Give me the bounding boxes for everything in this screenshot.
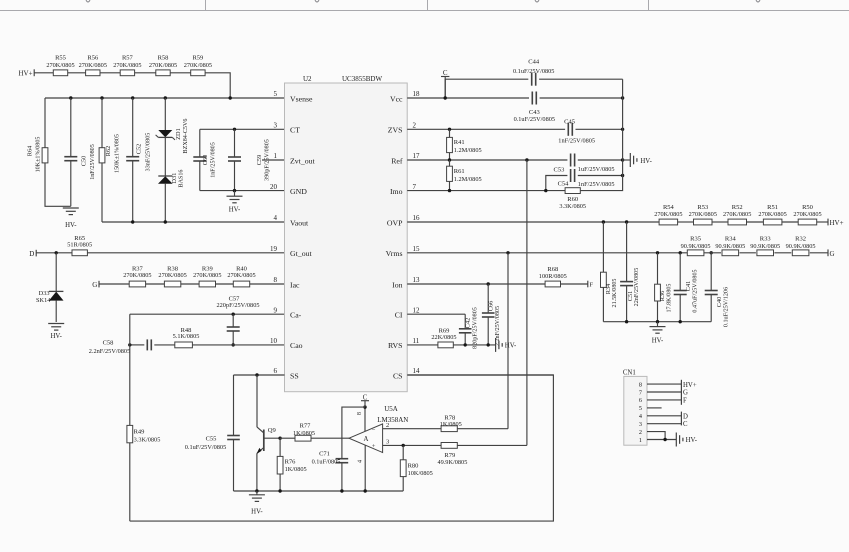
svg-text:Ref: Ref [391, 156, 403, 165]
svg-text:R55: R55 [55, 54, 66, 61]
svg-text:U5A: U5A [384, 405, 398, 413]
svg-text:5: 5 [639, 405, 642, 412]
svg-text:C44: C44 [528, 59, 540, 66]
wire Vcc net [407, 96, 624, 99]
svg-text:51R/0805: 51R/0805 [67, 241, 92, 248]
svg-text:CI: CI [395, 311, 403, 320]
resistor R36 17.8K (vertical) [655, 253, 673, 322]
svg-text:270K/0805: 270K/0805 [184, 62, 212, 69]
svg-text:11: 11 [413, 337, 420, 345]
resistor R78 1K [440, 253, 508, 432]
svg-text:Vaout: Vaout [290, 218, 309, 227]
svg-text:Iac: Iac [290, 280, 300, 289]
transistor Q9 [257, 375, 281, 491]
svg-text:3.3K/0805: 3.3K/0805 [134, 436, 161, 443]
svg-text:270K/0805: 270K/0805 [654, 211, 682, 218]
capacitor C50 1nF [64, 98, 96, 206]
svg-text:15: 15 [413, 245, 421, 253]
wire op-amp ground rail [234, 489, 404, 492]
capacitor C43 0.1uF [514, 92, 555, 124]
wire Iac net [99, 283, 285, 285]
svg-text:0.1uF/25V/0805: 0.1uF/25V/0805 [514, 116, 555, 123]
svg-text:270K/0805: 270K/0805 [158, 272, 186, 279]
svg-text:270K/0805: 270K/0805 [79, 62, 107, 69]
wire HV+ to R55..R59 chain [34, 73, 230, 98]
svg-text:R35: R35 [690, 236, 701, 243]
svg-text:R79: R79 [444, 452, 455, 459]
resistor R37 270K/0805 [123, 266, 151, 287]
svg-text:HV-: HV- [652, 338, 664, 345]
resistor R80 10K [400, 445, 433, 491]
svg-text:D: D [29, 250, 34, 258]
svg-text:R77: R77 [300, 423, 312, 430]
svg-text:10: 10 [270, 337, 278, 345]
svg-text:3.3K/0805: 3.3K/0805 [559, 203, 586, 210]
CN1 pin wires [647, 380, 681, 441]
svg-text:C: C [443, 69, 448, 77]
svg-text:33nF/25V/0805: 33nF/25V/0805 [145, 133, 151, 172]
svg-text:ZD1: ZD1 [175, 128, 182, 140]
svg-text:Vrms: Vrms [386, 249, 403, 258]
capacitor C51 22nF (vertical) [620, 222, 640, 322]
net label G [92, 281, 99, 289]
svg-text:R41: R41 [454, 139, 465, 146]
wire Ion net [407, 282, 588, 285]
svg-text:C58: C58 [103, 339, 114, 346]
svg-text:22K/0805: 22K/0805 [431, 334, 456, 341]
svg-text:C66: C66 [487, 301, 494, 312]
svg-text:C60: C60 [202, 155, 209, 166]
wire ZVS net [407, 128, 624, 131]
svg-text:1nF/25V/0805: 1nF/25V/0805 [90, 144, 96, 180]
svg-text:0.1uF/25V/0805: 0.1uF/25V/0805 [185, 444, 226, 451]
svg-text:4: 4 [639, 413, 642, 420]
U5A pin 4 [357, 445, 365, 491]
svg-text:0.1uF/25V/0805: 0.1uF/25V/0805 [513, 68, 554, 75]
svg-text:1nF/25V/0805: 1nF/25V/0805 [578, 181, 615, 188]
svg-text:R57: R57 [122, 54, 134, 61]
resistor R62 150K [99, 98, 120, 222]
svg-text:1.2M/0805: 1.2M/0805 [454, 147, 482, 154]
capacitor C52 33nF [126, 98, 151, 222]
ground HV- (RVS) [496, 338, 517, 352]
svg-text:270K/0805: 270K/0805 [123, 272, 151, 279]
svg-text:5: 5 [274, 90, 278, 98]
wire U5A pin 3 to R79 [383, 439, 442, 447]
svg-text:3: 3 [386, 439, 389, 446]
svg-text:16: 16 [413, 214, 421, 222]
resistor R38 270K/0805 [158, 266, 186, 287]
resistor R57 270K/0805 [113, 54, 141, 75]
capacitor C42 820pF (vertical) [459, 307, 479, 349]
svg-text:270K/0805: 270K/0805 [149, 62, 177, 69]
capacitor C57 220pF [216, 295, 259, 346]
svg-text:C41: C41 [685, 281, 692, 292]
svg-text:90.9K/0805: 90.9K/0805 [750, 243, 780, 250]
svg-text:R76: R76 [285, 458, 297, 465]
svg-text:150K±1%/0805: 150K±1%/0805 [114, 134, 120, 173]
resistor R65 51R [67, 235, 92, 256]
svg-text:8: 8 [274, 276, 278, 284]
svg-text:C50: C50 [80, 156, 87, 167]
resistor R61 1.2M [447, 160, 482, 191]
resistor R40 270K/0805 [227, 266, 255, 287]
svg-text:820pF/25V/0805: 820pF/25V/0805 [473, 307, 479, 349]
svg-text:HV-: HV- [640, 158, 652, 165]
svg-text:1nF/25V/0805: 1nF/25V/0805 [211, 142, 217, 178]
svg-text:R60: R60 [567, 196, 578, 203]
svg-text:1K/0805: 1K/0805 [285, 466, 307, 473]
svg-text:100R/0805: 100R/0805 [539, 273, 567, 280]
svg-text:6: 6 [274, 367, 278, 375]
wire OVP net [407, 220, 828, 223]
svg-text:G: G [92, 281, 97, 289]
svg-text:A: A [364, 436, 369, 443]
svg-text:ZVS: ZVS [388, 126, 403, 135]
U5A pin 8 / net C [357, 394, 369, 431]
resistor R32 90.9K/0805 [786, 236, 816, 256]
capacitor C41 0.47uF (vertical) [674, 253, 699, 322]
svg-text:F: F [683, 398, 687, 405]
diode D33 SK14 [36, 253, 63, 322]
resistor R56 270K/0805 [79, 54, 107, 75]
svg-text:17.8K/0805: 17.8K/0805 [667, 284, 673, 313]
svg-text:2: 2 [386, 422, 389, 429]
ground HV- (R64/C50) [63, 208, 79, 229]
svg-text:14: 14 [413, 367, 421, 375]
resistor R34 90.9K/0805 [715, 236, 745, 256]
svg-text:270K/0805: 270K/0805 [723, 211, 751, 218]
resistor R76 1K [277, 438, 306, 491]
svg-text:HV-: HV- [505, 343, 517, 350]
svg-text:270K/0805: 270K/0805 [46, 62, 74, 69]
capacitor C55 0.1uF [185, 375, 240, 491]
svg-text:UC3855BDW: UC3855BDW [342, 75, 382, 83]
svg-text:10K/0805: 10K/0805 [408, 470, 433, 477]
svg-text:R49: R49 [134, 428, 145, 435]
net label HV+ (top left) [19, 69, 35, 77]
net label F [588, 281, 594, 289]
svg-text:HV+: HV+ [19, 69, 33, 77]
ground HV- (D33) [48, 324, 64, 340]
resistor R41 1.2M [447, 129, 482, 160]
resistor R35 90.9K/0805 [681, 236, 711, 256]
wire RVS net [407, 343, 495, 346]
zener ZD1 BZX84-C5V6 [156, 98, 189, 153]
svg-text:R61: R61 [454, 168, 465, 175]
resistor R53 270K/0805 [689, 204, 717, 225]
svg-text:R33: R33 [760, 236, 771, 243]
op-amp U5A LM358AN [349, 405, 408, 453]
svg-text:1K/0805: 1K/0805 [440, 421, 462, 428]
svg-text:1.2M/0805: 1.2M/0805 [454, 176, 482, 183]
svg-text:D31: D31 [171, 173, 178, 184]
svg-text:C40: C40 [716, 297, 723, 308]
wire CI net [407, 313, 465, 315]
svg-text:HV-: HV- [686, 437, 698, 444]
svg-text:2: 2 [639, 429, 642, 436]
svg-text:7: 7 [639, 389, 642, 396]
svg-text:OVP: OVP [387, 218, 403, 227]
capacitor C45 1nF [558, 118, 595, 144]
resistor R59 270K/0805 [184, 54, 212, 75]
svg-text:90.9K/0805: 90.9K/0805 [715, 243, 745, 250]
svg-text:HV-: HV- [65, 222, 77, 229]
svg-text:1nF/25V/0805: 1nF/25V/0805 [558, 138, 595, 145]
net label C (Vcc) [441, 69, 449, 98]
svg-text:RVS: RVS [388, 341, 403, 350]
svg-text:270K/0805: 270K/0805 [113, 62, 141, 69]
resistor R52 270K/0805 [723, 204, 751, 225]
svg-text:HV-: HV- [251, 508, 263, 515]
svg-text:8: 8 [357, 412, 363, 415]
svg-text:3: 3 [639, 421, 642, 428]
net label HV+ (right) [828, 219, 844, 228]
svg-text:13: 13 [413, 276, 421, 284]
svg-text:R62: R62 [105, 146, 112, 157]
svg-text:+: + [372, 443, 376, 450]
svg-text:R64: R64 [27, 145, 34, 156]
capacitor C59 390pF [228, 129, 271, 190]
resistor R39 270K/0805 [193, 266, 221, 287]
svg-text:CS: CS [393, 371, 403, 380]
svg-text:R59: R59 [192, 54, 203, 61]
svg-text:C53: C53 [554, 167, 565, 174]
svg-text:10K±1%/0805: 10K±1%/0805 [35, 137, 41, 173]
svg-text:20: 20 [270, 183, 278, 191]
svg-text:C55: C55 [206, 436, 217, 443]
svg-text:22nF/25V/0805: 22nF/25V/0805 [634, 268, 640, 307]
capacitor C54 1nF [546, 169, 625, 191]
resistor R33 90.9K/0805 [750, 236, 780, 256]
resistor R64 10K [27, 98, 71, 206]
svg-text:HV+: HV+ [683, 382, 697, 389]
svg-text:6: 6 [639, 397, 642, 404]
svg-text:R36: R36 [659, 291, 666, 302]
svg-text:C51: C51 [627, 291, 634, 302]
svg-text:8: 8 [639, 381, 642, 388]
svg-text:Gt_out: Gt_out [290, 249, 312, 258]
svg-text:HV+: HV+ [830, 219, 844, 227]
svg-text:4: 4 [357, 460, 363, 463]
diode D31 BAS16 [158, 137, 184, 222]
svg-text:270K/0805: 270K/0805 [193, 272, 221, 279]
wire Zvt_out stub [262, 159, 285, 161]
svg-text:220pF/25V/0805: 220pF/25V/0805 [216, 302, 259, 309]
svg-text:D: D [683, 413, 688, 420]
svg-text:C: C [683, 421, 688, 428]
connector CN1 [623, 369, 647, 445]
resistor R55 270K/0805 [46, 54, 74, 75]
wire Vsense net [45, 96, 285, 99]
ground HV- (divider) [650, 322, 666, 345]
resistor R60 3.3K [559, 79, 622, 210]
svg-text:3: 3 [274, 122, 278, 130]
wire CT net [200, 128, 285, 131]
resistor R79 49.9K [437, 160, 526, 466]
ground HV- (right, Ref) [623, 153, 653, 167]
svg-text:270K/0805: 270K/0805 [689, 211, 717, 218]
CN1 net labels [683, 382, 697, 428]
wire CS net [407, 374, 553, 376]
svg-text:R56: R56 [87, 54, 99, 61]
wire CS loop (bottom) [130, 375, 554, 521]
svg-text:GND: GND [290, 187, 307, 196]
wire Ca- net [130, 313, 285, 316]
capacitor C58 2.2nF [89, 339, 152, 355]
resistor R58 270K/0805 [149, 54, 177, 75]
svg-text:2: 2 [413, 122, 417, 130]
svg-text:C54: C54 [558, 181, 570, 188]
resistor R51 270K/0805 [758, 204, 786, 225]
svg-text:21.5K/0805: 21.5K/0805 [612, 279, 618, 308]
svg-text:C52: C52 [135, 144, 142, 155]
svg-text:Vsense: Vsense [290, 94, 313, 103]
net label G (right) [828, 249, 835, 258]
resistor R49 3.3K [127, 314, 160, 521]
ground HV- (op-amp rail) [249, 491, 265, 515]
svg-text:Cao: Cao [290, 341, 303, 350]
svg-text:C45: C45 [564, 118, 575, 125]
wire Vaout net [102, 220, 285, 223]
svg-text:Ca-: Ca- [290, 311, 302, 320]
svg-text:Imo: Imo [390, 187, 403, 196]
wire Cao net [128, 343, 284, 346]
svg-text:R68: R68 [547, 266, 558, 273]
capacitor C71 0.1uF [312, 407, 365, 491]
wire divider ground rail [603, 320, 711, 323]
svg-text:LM358AN: LM358AN [377, 416, 408, 424]
svg-text:Q9: Q9 [268, 427, 277, 434]
svg-text:HV-: HV- [229, 207, 241, 214]
svg-text:R32: R32 [795, 236, 806, 243]
svg-text:0.1uF/25V/1206: 0.1uF/25V/1206 [723, 287, 729, 327]
svg-text:Ion: Ion [392, 280, 402, 289]
svg-text:CT: CT [290, 126, 300, 135]
svg-text:C42: C42 [465, 318, 472, 329]
svg-text:SK14: SK14 [36, 297, 51, 304]
resistor R68 100R [539, 266, 567, 287]
wire SS net [234, 373, 285, 376]
svg-text:1K/0805: 1K/0805 [293, 430, 315, 437]
svg-text:R34: R34 [605, 283, 612, 294]
resistor R77 1K [278, 423, 349, 441]
svg-text:270K/0805: 270K/0805 [793, 211, 821, 218]
svg-text:0.1uF/0805: 0.1uF/0805 [312, 458, 341, 465]
svg-text:90.9K/0805: 90.9K/0805 [786, 243, 816, 250]
svg-text:SS: SS [290, 371, 299, 380]
svg-text:49.9K/0805: 49.9K/0805 [437, 459, 467, 466]
svg-text:17: 17 [413, 152, 421, 160]
resistor R34 21.5K (vertical) [601, 222, 619, 322]
wire U5A pin 2 to R78 [383, 422, 442, 429]
svg-text:12: 12 [413, 306, 421, 314]
resistor R69 22K [431, 327, 456, 347]
svg-text:1: 1 [639, 437, 642, 444]
svg-text:1uF/25V/0805: 1uF/25V/0805 [578, 166, 615, 173]
capacitor C44 0.1uF [445, 59, 622, 98]
resistor R48 5.1K [173, 327, 200, 348]
op-amp/IC U2 UC3855BDW [285, 75, 408, 392]
svg-text:270K/0805: 270K/0805 [758, 211, 786, 218]
svg-text:G: G [683, 390, 688, 397]
svg-text:Zvt_out: Zvt_out [290, 156, 316, 165]
svg-text:90.9K/0805: 90.9K/0805 [681, 243, 711, 250]
svg-text:F: F [589, 282, 593, 289]
svg-text:270K/0805: 270K/0805 [227, 272, 255, 279]
resistor R50 270K/0805 [793, 204, 821, 225]
capacitor C53 1uF [554, 154, 615, 174]
wire Ref net [407, 158, 624, 161]
capacitor C40 0.1uF (vertical) [705, 253, 730, 327]
wire Gt_out net [36, 251, 284, 254]
svg-text:CN1: CN1 [623, 369, 636, 376]
svg-text:7: 7 [413, 183, 417, 191]
U2 pin numbers [270, 90, 420, 375]
svg-text:4: 4 [274, 214, 278, 222]
svg-text:BAS16: BAS16 [178, 170, 184, 188]
svg-text:R80: R80 [408, 462, 419, 469]
ground HV- (CN1) [676, 433, 697, 447]
wire GND net [200, 189, 285, 192]
svg-text:C71: C71 [319, 450, 330, 457]
svg-text:1: 1 [274, 152, 278, 160]
svg-text:19: 19 [270, 245, 278, 253]
net label D [29, 250, 36, 258]
svg-text:HV-: HV- [50, 333, 62, 340]
svg-text:R34: R34 [725, 236, 737, 243]
svg-text:18: 18 [413, 90, 421, 98]
ground HV- (C59/GND) [227, 191, 243, 214]
wire Imo net [407, 189, 565, 192]
svg-text:U2: U2 [303, 75, 312, 83]
svg-text:5.1K/0805: 5.1K/0805 [173, 333, 200, 340]
svg-text:2.2nF/25V/0805: 2.2nF/25V/0805 [89, 348, 130, 355]
svg-text:9: 9 [274, 306, 278, 314]
svg-text:G: G [830, 250, 835, 258]
capacitor C66 2.2nF (vertical) [482, 284, 501, 346]
svg-text:C: C [363, 394, 368, 401]
resistor R54 270K/0805 [654, 204, 682, 225]
svg-text:0.47uF/25V/0805: 0.47uF/25V/0805 [692, 269, 698, 312]
wire Vrms net [407, 251, 828, 254]
capacitor C60 1nF [193, 129, 216, 190]
svg-text:BZX84-C5V6: BZX84-C5V6 [183, 119, 189, 154]
svg-text:R58: R58 [158, 54, 169, 61]
svg-text:Vcc: Vcc [390, 94, 403, 103]
svg-text:−: − [372, 427, 376, 434]
